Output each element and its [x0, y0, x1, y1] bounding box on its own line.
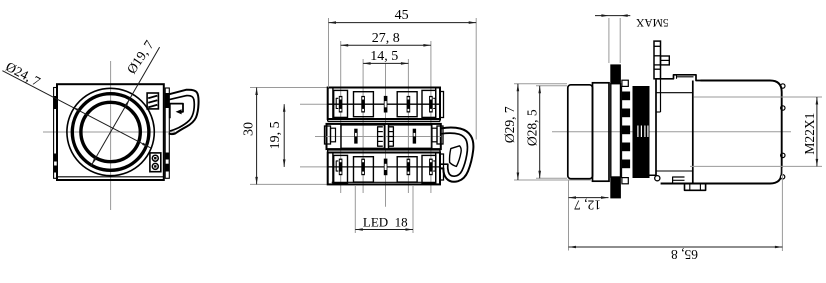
svg-text:5MAX: 5MAX — [635, 16, 668, 28]
svg-text:12, 7: 12, 7 — [574, 198, 601, 213]
svg-text:19, 5: 19, 5 — [268, 121, 283, 149]
svg-text:65, 8: 65, 8 — [671, 247, 698, 262]
svg-text:LED 18: LED 18 — [363, 215, 408, 230]
svg-text:Ø29, 7: Ø29, 7 — [502, 106, 517, 143]
svg-text:30: 30 — [242, 122, 257, 136]
svg-text:45: 45 — [395, 8, 409, 23]
svg-text:Ø28, 5: Ø28, 5 — [525, 109, 540, 146]
svg-text:27, 8: 27, 8 — [372, 31, 400, 46]
svg-text:M22X1: M22X1 — [802, 113, 817, 155]
svg-text:14, 5: 14, 5 — [370, 49, 398, 64]
